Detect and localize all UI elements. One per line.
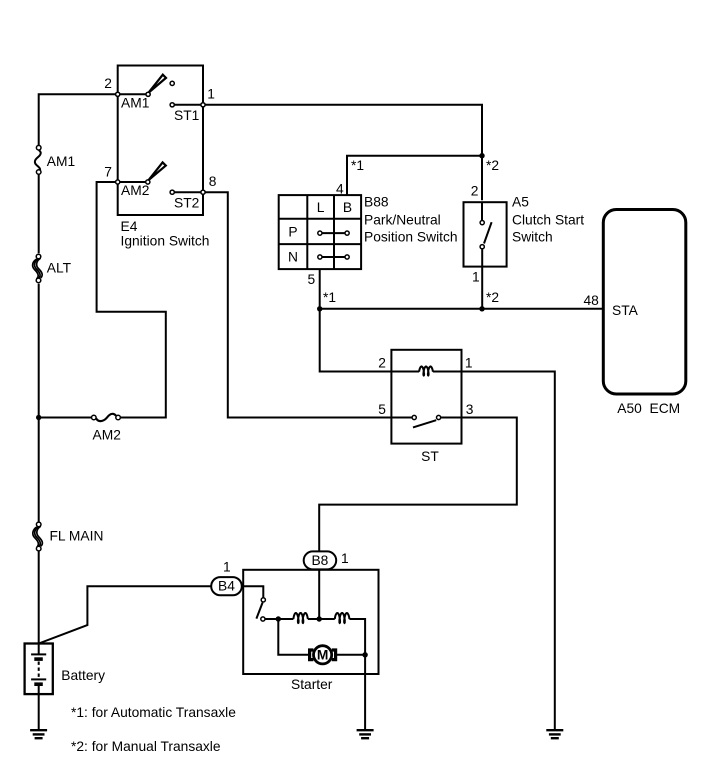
clutch lower contact	[480, 245, 484, 249]
main STA bus wire	[320, 308, 604, 310]
wire B8 into starter	[318, 553, 320, 619]
clutch lever	[484, 222, 492, 243]
svg-text:*1: *1	[323, 290, 336, 305]
wire relay pin3 to B8	[319, 418, 517, 553]
svg-text:*1: for Automatic Transaxle: *1: for Automatic Transaxle	[71, 705, 236, 720]
clutch upper contact	[480, 221, 484, 225]
junction AM2 node	[36, 415, 41, 420]
starter coil 2	[335, 613, 350, 623]
motor M	[310, 646, 336, 664]
wire B4 wire inside starter to switch	[243, 586, 263, 597]
ST2 contact	[170, 190, 174, 194]
terminal 8	[201, 190, 205, 194]
terminal 7	[116, 180, 120, 184]
svg-text:Park/Neutral: Park/Neutral	[364, 212, 441, 227]
svg-text:L: L	[317, 200, 325, 215]
battery internal wire top	[38, 644, 40, 655]
wire switch to coil1	[265, 618, 293, 620]
svg-text:M: M	[317, 647, 329, 662]
wire coil to pin1	[433, 371, 462, 373]
AM1 lever pivot	[146, 92, 150, 96]
svg-text:Position Switch: Position Switch	[364, 230, 458, 245]
wire AM1 pole	[118, 93, 148, 95]
svg-text:2: 2	[378, 356, 386, 371]
ignition switch E4 box	[118, 66, 203, 216]
ground battery	[30, 730, 47, 738]
starter switch lever	[256, 603, 262, 619]
wire B88 pin4 to *2 junction	[347, 156, 482, 195]
svg-text:Battery: Battery	[61, 668, 105, 683]
wire terminal 1 to *2 junction	[203, 105, 482, 200]
svg-text:Ignition Switch: Ignition Switch	[121, 234, 210, 249]
terminal 2	[116, 92, 120, 96]
battery feed to starter B4	[39, 586, 244, 643]
AM2 lever pivot	[146, 180, 150, 184]
svg-text:ST: ST	[421, 449, 439, 464]
junction starter switch node	[276, 616, 281, 621]
wire relay pin5 contact	[391, 417, 411, 419]
junction *2 bus	[479, 306, 484, 311]
junction *2 top	[479, 153, 484, 158]
svg-text:48: 48	[584, 293, 600, 308]
wire left vertical FL MAIN to battery	[38, 551, 40, 654]
svg-text:1: 1	[207, 87, 215, 102]
wire junction to motor row	[278, 619, 308, 655]
wire clutch pin2 into box	[481, 202, 483, 220]
svg-text:B4: B4	[218, 578, 235, 593]
starter box	[243, 570, 378, 674]
svg-text:E4: E4	[121, 219, 138, 234]
relay coil	[419, 367, 433, 376]
svg-text:P: P	[288, 224, 297, 239]
ground starter	[357, 730, 374, 738]
wire coil2 to right leg	[349, 619, 365, 729]
fusible link ALT	[33, 254, 43, 283]
relay pin3 contact circle	[437, 415, 441, 419]
wire B88 pin5 to *1 junction	[319, 269, 321, 309]
svg-text:Switch: Switch	[512, 230, 553, 245]
svg-text:*2: *2	[486, 290, 499, 305]
svg-text:*2: for Manual Transaxle: *2: for Manual Transaxle	[71, 739, 221, 754]
svg-text:STA: STA	[612, 303, 639, 318]
svg-text:*2: *2	[486, 158, 499, 173]
wire battery to ground	[38, 694, 40, 729]
junction B8 coil node	[317, 616, 322, 621]
svg-text:7: 7	[104, 165, 112, 180]
battery plate long top	[31, 653, 46, 655]
battery plate short top	[34, 657, 43, 661]
svg-text:ALT: ALT	[47, 261, 72, 276]
clutch start switch A5 box	[464, 202, 507, 266]
B88 contact P row	[320, 232, 347, 234]
relay lever	[413, 420, 436, 427]
svg-text:B88: B88	[364, 195, 389, 210]
battery plate long bottom	[31, 678, 46, 680]
park/neutral position switch B88 table	[279, 195, 361, 269]
svg-text:Starter: Starter	[291, 677, 333, 692]
svg-text:1: 1	[341, 551, 349, 566]
starter switch lower contact	[261, 617, 265, 621]
wire ST1 contact to terminal 1	[172, 104, 203, 106]
svg-text:1: 1	[465, 356, 473, 371]
svg-text:A50 ECM: A50 ECM	[617, 401, 680, 416]
svg-text:AM1: AM1	[121, 96, 149, 111]
battery plate short bottom	[34, 682, 43, 686]
wire between coils	[308, 618, 335, 620]
svg-text:1: 1	[223, 560, 231, 575]
junction motor right node	[362, 652, 367, 657]
starter coil 1	[293, 613, 307, 623]
battery dashed separator	[38, 662, 40, 679]
wire AM2 pole	[118, 181, 148, 183]
svg-text:AM1: AM1	[47, 154, 75, 169]
battery box	[25, 644, 53, 695]
wire fuse AM2 to ignition terminal 7	[97, 182, 166, 418]
svg-text:N: N	[288, 249, 298, 264]
wire pin2 to coil	[391, 371, 419, 373]
svg-text:4: 4	[336, 182, 344, 197]
svg-text:2: 2	[104, 76, 112, 91]
terminal 1	[201, 103, 205, 107]
wire relay pin3	[441, 417, 462, 419]
svg-text:5: 5	[378, 402, 386, 417]
wire *1 junction to ST relay pin 2	[320, 309, 392, 372]
wire left vertical ALT link to AM2 node	[38, 284, 40, 418]
wire left vertical between AM1 fuse and ALT link	[38, 174, 40, 253]
AM1 lever top contact	[170, 81, 174, 85]
ECM A50 box	[603, 210, 686, 395]
svg-text:Clutch Start: Clutch Start	[512, 212, 584, 227]
wire clutch pin1 to *2 bus junction	[481, 249, 483, 309]
svg-text:AM2: AM2	[93, 428, 121, 443]
svg-text:8: 8	[209, 174, 217, 189]
svg-text:B8: B8	[311, 553, 328, 568]
switch lever AM1	[149, 75, 166, 93]
svg-text:A5: A5	[512, 195, 529, 210]
fusible link FL MAIN	[33, 522, 43, 551]
wire AM2 node to fuse AM2	[39, 417, 92, 419]
wire left vertical AM2 node to FL MAIN	[38, 418, 40, 523]
svg-text:FL MAIN: FL MAIN	[50, 529, 104, 544]
starter relay ST box	[391, 350, 461, 444]
svg-text:ST2: ST2	[174, 196, 199, 211]
svg-text:1: 1	[472, 270, 480, 285]
svg-text:B: B	[343, 200, 352, 215]
wire motor to right leg	[337, 654, 365, 656]
svg-text:AM2: AM2	[121, 183, 149, 198]
relay pin5 contact circle	[412, 415, 416, 419]
wire relay pin1 to right ground run	[462, 372, 555, 730]
wire battery positive feed (left vertical)	[39, 94, 118, 145]
junction *1 bus	[317, 306, 322, 311]
fuse AM1	[35, 145, 41, 174]
svg-text:3: 3	[466, 402, 474, 417]
connector B8	[304, 551, 337, 569]
ST1 contact	[170, 103, 174, 107]
battery internal wire bottom	[38, 684, 40, 694]
fuse AM2	[92, 414, 121, 421]
B88 contact N row	[320, 256, 347, 258]
connector B4	[211, 577, 242, 595]
svg-text:ST1: ST1	[174, 108, 199, 123]
switch lever AM2	[149, 162, 166, 180]
wire ST2 contact to terminal 8	[172, 191, 203, 193]
svg-text:2: 2	[471, 184, 479, 199]
wire terminal 8 to ST relay pin 5	[203, 192, 391, 417]
starter switch upper contact	[261, 598, 265, 602]
ground ECM side	[546, 730, 563, 738]
svg-text:*1: *1	[351, 158, 364, 173]
svg-text:5: 5	[308, 272, 316, 287]
